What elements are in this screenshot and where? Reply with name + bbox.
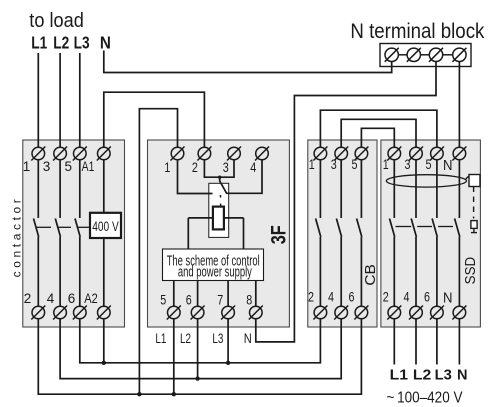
svg-text:L3: L3 (74, 32, 90, 52)
svg-text:3: 3 (405, 157, 411, 172)
SSD terminal N (bottom) (452, 306, 466, 320)
wire 3F L3 drop (227, 319, 229, 363)
wire 3F L2 drop (197, 319, 199, 379)
svg-text:L3: L3 (435, 366, 452, 383)
3F terminal 1 (top) (171, 147, 185, 161)
wire scheme box to 3F terminal 5 (173, 281, 175, 307)
svg-text:2: 2 (383, 290, 389, 305)
3F terminal 4 (top) (255, 147, 269, 161)
svg-text:1: 1 (309, 157, 315, 172)
svg-text:6: 6 (349, 290, 355, 305)
wire L2 to contactor terminal 3 (59, 53, 61, 147)
wire 3F t3 to junction (220, 160, 234, 177)
supply wire L2 (415, 319, 417, 365)
junction riser-busL1 (137, 392, 141, 396)
N block terminal 2 (407, 48, 421, 62)
CB breaker contact 1 (316, 160, 321, 306)
CB terminal 1 (top) (313, 147, 327, 161)
svg-text:to load: to load (29, 10, 84, 32)
contactor linkage dash 3 (78, 226, 90, 228)
SSD current transformer ring (386, 175, 466, 187)
wire 3F t4 to switch blade (227, 160, 262, 194)
junction 3F L3-busL3 (226, 361, 230, 365)
switch enclosure (209, 183, 229, 237)
control scheme box (163, 249, 264, 281)
CB terminal 6 (bottom) (354, 306, 368, 320)
SSD contact 4 (455, 160, 460, 306)
CB breaker contact 2 (336, 160, 341, 306)
CB terminal 3 (top) (334, 147, 348, 161)
supply wire L1 (393, 319, 395, 365)
N block terminal 4 (452, 48, 466, 62)
svg-text:2: 2 (192, 160, 198, 175)
fuse F (213, 207, 224, 230)
svg-text:L2: L2 (180, 330, 191, 346)
wire fuse-left to scheme box (187, 218, 189, 249)
wire L3 to contactor terminal 5 (79, 53, 81, 147)
CB terminal 2 (bottom) (313, 306, 327, 320)
3F terminal 5 (bottom) (167, 306, 181, 320)
svg-text:SSD: SSD (463, 257, 479, 285)
wire N block 3 to 3F terminal 8 (256, 62, 436, 342)
junction 3F L2-busL2 (195, 376, 199, 380)
N block terminal 1 (385, 48, 399, 62)
contactor terminal 3 (top) (53, 147, 67, 161)
3F terminal 2 (top) (197, 147, 211, 161)
svg-text:2: 2 (308, 290, 314, 305)
3F terminal 8 (bottom) (249, 306, 263, 320)
svg-text:5: 5 (352, 157, 358, 172)
SSD contact 3 (432, 160, 437, 306)
svg-text:4: 4 (328, 290, 334, 305)
test button box (471, 221, 477, 229)
SSD contact 1 (390, 160, 395, 306)
wire 3F t1 to switch left contact (178, 160, 213, 194)
wire 3F t2 to junction (204, 160, 219, 177)
svg-text:6: 6 (186, 292, 192, 307)
SSD terminal 6 (bottom) (430, 306, 444, 320)
svg-text:5: 5 (65, 159, 73, 174)
svg-text:L1: L1 (31, 32, 47, 52)
svg-text:4: 4 (250, 160, 256, 175)
N block bus segment 2-3 (421, 54, 430, 56)
wire scheme box to 3F terminal 6 (197, 281, 199, 307)
test resistor box (469, 175, 480, 187)
svg-text:L1: L1 (390, 366, 409, 383)
svg-text:3: 3 (331, 157, 337, 172)
wire 3F L1 drop (173, 319, 175, 394)
CB terminal 4 (bottom) (334, 306, 348, 320)
wire scheme box to 3F terminal 8 (255, 281, 257, 307)
coil box 400 V (90, 213, 121, 238)
SSD terminal 2 (bottom) (387, 306, 401, 320)
SSD linkage dash 1 (396, 226, 412, 228)
CB breaker contact 3 (357, 160, 362, 306)
svg-text:2: 2 (24, 291, 32, 306)
junction A2-busL3 (102, 361, 106, 365)
contactor terminal A1 (top) (97, 147, 111, 161)
contactor terminal 5 (top) (73, 147, 87, 161)
svg-text:400 V: 400 V (92, 218, 119, 234)
junction 3F L1-busL1 (172, 392, 176, 396)
wire scheme box to 3F terminal 7 (227, 281, 229, 307)
SSD linkage dash 3 (438, 226, 453, 228)
contactor terminal 2 (bottom) (31, 306, 45, 320)
contactor block box (23, 140, 125, 327)
wire contactor A1 to 3F terminal 2 (104, 92, 205, 147)
CB terminal 5 (top) (354, 147, 368, 161)
switch-to-fuse dashed link (220, 195, 222, 198)
svg-text:~ 100–420 V: ~ 100–420 V (387, 389, 464, 406)
svg-text:L2: L2 (413, 366, 431, 383)
3F meter block box (148, 140, 290, 327)
N block bus segment 3-4 (443, 54, 453, 56)
switch blade Q (220, 177, 227, 193)
svg-text:N: N (100, 32, 111, 52)
test dashed link (473, 187, 475, 219)
SSD terminal 5 (top) (430, 147, 444, 161)
SSD contact 2 (411, 160, 416, 306)
3F terminal 7 (bottom) (221, 306, 235, 320)
contactor main contact 2 (55, 160, 60, 306)
SSD terminal 4 (bottom) (409, 306, 423, 320)
bus L3 contactor6-CB2 (80, 319, 321, 363)
3F terminal 6 (bottom) (191, 306, 205, 320)
SSD terminal N (top) (452, 147, 466, 161)
svg-text:L3: L3 (212, 330, 223, 346)
supply wire L3 (436, 319, 438, 365)
SSD terminal 3 (top) (409, 147, 423, 161)
svg-text:3F: 3F (267, 225, 290, 244)
contactor terminal 4 (bottom) (53, 306, 67, 320)
wire CB 5 to SSD 1 (361, 128, 394, 147)
svg-text:L2: L2 (53, 32, 69, 52)
SSD terminal 1 (top) (387, 147, 401, 161)
bus L2 contactor4-CB4 (60, 319, 341, 379)
fuse through-wire (188, 217, 243, 219)
svg-text:3: 3 (223, 160, 229, 175)
test button stem (473, 228, 475, 232)
bus L1 contactor2-CB6 (38, 319, 361, 394)
wire CB 3 to SSD 3 (341, 119, 416, 147)
SSD linkage dash 2 (417, 226, 432, 228)
contactor main contact 1 (34, 160, 39, 306)
svg-text:1: 1 (164, 160, 170, 175)
supply wire N (458, 319, 460, 365)
wire fuse-right to scheme box (243, 218, 245, 249)
wire contactor A2 drop (103, 319, 105, 363)
N terminal block box (380, 44, 471, 67)
svg-text:A1: A1 (82, 159, 95, 174)
svg-text:N terminal block: N terminal block (350, 19, 484, 43)
svg-text:A2: A2 (84, 291, 98, 306)
wire 3F terminal 1 riser (139, 109, 177, 395)
svg-text:N: N (457, 366, 468, 383)
svg-text:5: 5 (426, 157, 432, 172)
svg-text:6: 6 (424, 290, 430, 305)
wire ring to test resistor (466, 175, 470, 179)
3F terminal 3 (top) (227, 147, 241, 161)
svg-text:CB: CB (362, 264, 379, 286)
svg-text:4: 4 (47, 291, 55, 306)
N block bus segment 1-2 (398, 54, 407, 56)
wire N block 4 to SSD terminal N (458, 62, 460, 148)
svg-text:5: 5 (160, 292, 166, 307)
contactor main contact 3 (75, 160, 80, 306)
CB block box (308, 140, 377, 327)
svg-text:1: 1 (23, 159, 31, 174)
svg-text:3: 3 (43, 159, 51, 174)
N block terminal 3 (429, 48, 443, 62)
test button foot (471, 232, 477, 234)
svg-text:1: 1 (383, 157, 389, 172)
wire coil to A2 (103, 238, 105, 306)
contactor linkage dash 1 (36, 226, 51, 228)
contactor terminal 6 (bottom) (73, 306, 87, 320)
svg-text:N: N (443, 291, 453, 307)
svg-text:7: 7 (217, 292, 223, 307)
svg-text:8: 8 (246, 292, 252, 307)
SSD block box (381, 140, 481, 327)
wire CB 1 to SSD 5 (320, 110, 437, 147)
svg-text:N: N (244, 330, 252, 346)
junction t2-t3 (218, 176, 221, 179)
wire N load to N terminal block 1 (104, 51, 392, 73)
contactor terminal A2 (bottom) (97, 306, 111, 320)
svg-text:6: 6 (68, 291, 76, 306)
contactor linkage dash 2 (58, 226, 71, 228)
wire A1 to coil (103, 160, 105, 213)
wire L1 to contactor terminal 1 (37, 53, 39, 147)
svg-text:and power supply: and power supply (178, 264, 252, 280)
svg-text:4: 4 (404, 290, 410, 305)
svg-text:contactor: contactor (10, 196, 24, 278)
contactor terminal 1 (top) (31, 147, 45, 161)
svg-text:L1: L1 (155, 330, 166, 346)
svg-text:N: N (443, 158, 453, 174)
